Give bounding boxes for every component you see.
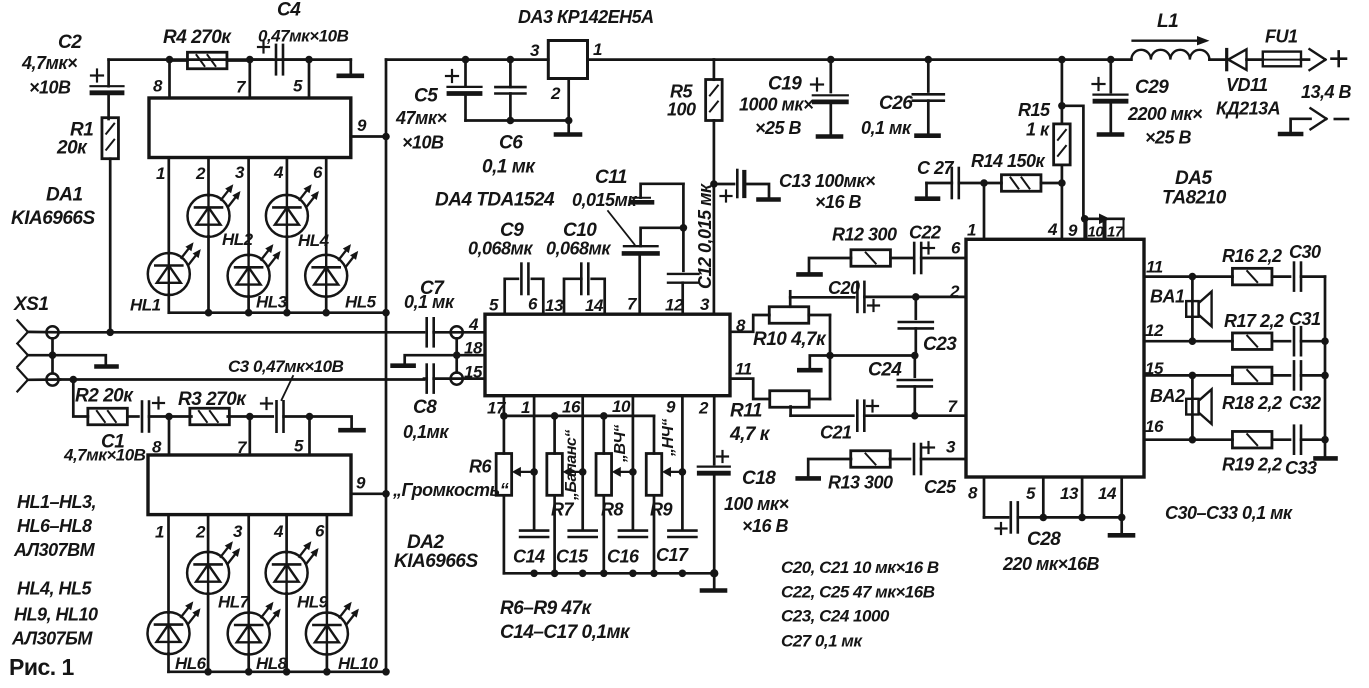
svg-text:C20: C20 <box>828 278 860 298</box>
ground pin 18 <box>405 355 457 363</box>
svg-text:14: 14 <box>1098 484 1117 503</box>
svg-text:4: 4 <box>273 522 284 541</box>
svg-text:R11: R11 <box>730 401 762 422</box>
svg-text:×10В: ×10В <box>29 78 71 98</box>
wire XS1 contact stubs <box>28 331 60 334</box>
capacitor C29 <box>1107 56 1115 64</box>
pin 2 DA4 <box>713 396 716 464</box>
pin 18 DA4 <box>457 354 485 357</box>
svg-text:18: 18 <box>464 339 483 358</box>
svg-text:C 27: C 27 <box>917 158 955 178</box>
speaker BA2 <box>1191 375 1194 439</box>
svg-text:DA3 КР142ЕН5А: DA3 КР142ЕН5А <box>518 7 654 27</box>
svg-text:0,015мк: 0,015мк <box>572 190 637 210</box>
svg-text:DA1: DA1 <box>46 185 83 206</box>
svg-text:R13 300: R13 300 <box>828 473 893 493</box>
pin 3 DA1 <box>247 158 250 256</box>
svg-text:15: 15 <box>464 363 483 382</box>
socket contact upper <box>46 326 58 338</box>
IC DA4 box <box>485 314 730 396</box>
svg-text:КД213А: КД213А <box>1216 99 1280 119</box>
capacitor C10 with pins 13,14 <box>564 279 581 314</box>
output plus terminal <box>1310 49 1326 60</box>
svg-text:0,1 мк: 0,1 мк <box>861 118 912 138</box>
svg-text:1: 1 <box>593 40 602 59</box>
svg-text:9: 9 <box>1068 221 1078 240</box>
pin 6 DA2 <box>326 515 329 613</box>
svg-text:Рис. 1: Рис. 1 <box>9 654 75 680</box>
wire rail bus-to-DA3 <box>386 58 548 61</box>
svg-text:0,1 мк: 0,1 мк <box>482 157 536 178</box>
wire top-left rail <box>109 58 351 61</box>
svg-text:HL1: HL1 <box>130 296 161 315</box>
svg-text:R10 4,7к: R10 4,7к <box>753 329 827 350</box>
potentiometer R7 balance <box>547 454 563 496</box>
svg-text:C23, C24 1000: C23, C24 1000 <box>781 607 890 626</box>
svg-text:2: 2 <box>550 84 561 103</box>
svg-text:R15: R15 <box>1018 100 1051 120</box>
svg-text:„НЧ“: „НЧ“ <box>660 419 677 457</box>
capacitor C1 <box>127 415 138 418</box>
resistor R17 2.2 <box>1192 340 1232 343</box>
svg-text:XS1: XS1 <box>13 294 48 315</box>
resistor R3 270k <box>169 415 191 418</box>
pin 1 DA1 <box>167 158 170 254</box>
pin 6 DA1 <box>325 158 328 256</box>
svg-text:R12 300: R12 300 <box>832 225 897 245</box>
pin 1 DA3 <box>588 58 714 61</box>
pin 5 DA1 <box>308 60 311 98</box>
fuse FU1 <box>1263 52 1301 67</box>
svg-text:C19: C19 <box>768 74 802 95</box>
svg-text:C33: C33 <box>1285 458 1317 478</box>
svg-text:L1: L1 <box>1157 11 1178 32</box>
svg-text:2: 2 <box>698 399 709 418</box>
resistor R11 4.7k <box>770 391 810 408</box>
svg-text:13: 13 <box>545 296 564 315</box>
capacitor C24 <box>913 356 916 377</box>
node C20-C23 <box>912 293 920 301</box>
svg-text:11: 11 <box>1146 258 1163 277</box>
LED HL9 <box>266 552 308 594</box>
svg-text:C30–C33 0,1 мк: C30–C33 0,1 мк <box>1165 503 1293 523</box>
svg-text:9: 9 <box>357 116 367 135</box>
svg-text:C29: C29 <box>1135 77 1169 98</box>
capacitor C18 <box>698 466 730 468</box>
resistor R18 2.2 <box>1192 374 1232 377</box>
svg-text:0,1 мк: 0,1 мк <box>404 292 455 312</box>
svg-text:5: 5 <box>489 296 499 315</box>
capacitor C3 <box>250 415 273 418</box>
svg-text:×25 В: ×25 В <box>1145 128 1192 148</box>
pin 7 DA1 <box>248 61 251 99</box>
pin 3 DA2 <box>247 515 250 613</box>
svg-text:R17 2,2: R17 2,2 <box>1224 311 1284 331</box>
svg-text:C11: C11 <box>595 167 627 188</box>
svg-text:HL1–HL3,: HL1–HL3, <box>17 492 96 512</box>
node R14-R15 <box>1058 179 1066 187</box>
socket pin 15 <box>451 373 463 385</box>
pin 9 DA2 <box>351 492 386 495</box>
svg-text:15: 15 <box>1145 359 1164 378</box>
svg-text:9: 9 <box>666 398 676 417</box>
svg-text:HL4: HL4 <box>298 231 330 250</box>
node R15 top bypass <box>1058 102 1066 110</box>
svg-text:13,4 В: 13,4 В <box>1301 82 1352 102</box>
svg-text:C14–C17 0,1мк: C14–C17 0,1мк <box>500 622 631 643</box>
svg-text:1 к: 1 к <box>1026 120 1050 140</box>
node C5 junction <box>462 56 470 64</box>
svg-text:12: 12 <box>1145 321 1164 340</box>
capacitor C27 <box>950 168 953 198</box>
svg-text:HL7: HL7 <box>218 593 251 612</box>
capacitor C4 <box>250 58 272 61</box>
pin 8 DA4 <box>730 315 769 332</box>
wire output right bus <box>1324 277 1327 457</box>
svg-text:5: 5 <box>1026 484 1036 503</box>
svg-text:C22: C22 <box>909 223 941 243</box>
svg-text:C18: C18 <box>742 468 776 489</box>
resistor R1 20k <box>102 118 119 159</box>
svg-text:2: 2 <box>195 164 206 183</box>
svg-text:1: 1 <box>521 398 530 417</box>
capacitor C23 <box>914 297 917 319</box>
svg-text:VD11: VD11 <box>1226 75 1268 95</box>
capacitor C15 <box>569 529 597 532</box>
pin 2 DA1 <box>207 158 210 196</box>
svg-text:R14 150к: R14 150к <box>971 151 1046 171</box>
svg-text:C2: C2 <box>58 32 82 53</box>
svg-text:C16: C16 <box>607 547 640 567</box>
svg-text:HL8: HL8 <box>256 654 288 673</box>
svg-text:C12 0,015 мк: C12 0,015 мк <box>695 183 715 289</box>
svg-text:4,7 к: 4,7 к <box>729 424 771 445</box>
wire R11 stem <box>789 407 792 416</box>
svg-text:9: 9 <box>356 474 366 493</box>
pin 10 DA4 <box>632 396 635 529</box>
svg-text:13: 13 <box>1060 484 1079 503</box>
svg-text:HL6–HL8: HL6–HL8 <box>17 516 92 536</box>
pin 9 DA1 <box>351 135 386 138</box>
svg-text:1: 1 <box>155 523 164 542</box>
svg-text:C17: C17 <box>656 545 689 565</box>
svg-text:5: 5 <box>293 77 303 96</box>
svg-text:0,47мк×10В: 0,47мк×10В <box>258 27 349 46</box>
capacitor C20 <box>856 282 859 312</box>
svg-text:KIA6966S: KIA6966S <box>11 208 95 229</box>
svg-text:R8: R8 <box>601 500 623 520</box>
LED HL4 <box>266 195 308 237</box>
pin 8 DA1 <box>168 60 171 98</box>
node C6 junction <box>507 56 515 64</box>
svg-text:0,1мк: 0,1мк <box>403 422 449 442</box>
pin 7 DA2 <box>248 417 251 456</box>
svg-text:DA2: DA2 <box>407 532 444 553</box>
svg-text:×25 В: ×25 В <box>755 118 802 138</box>
node DA2 LED bus to vertical bus <box>382 668 390 676</box>
svg-text:1: 1 <box>156 164 165 183</box>
node LED bus to vertical bus <box>382 309 390 317</box>
svg-text:C31: C31 <box>1289 309 1321 329</box>
wire bypass to pins 9-10-17 <box>1062 106 1084 219</box>
svg-text:HL5: HL5 <box>345 293 377 312</box>
LED HL8 <box>228 613 270 655</box>
capacitor C13 <box>714 183 734 186</box>
pin 4 DA2 <box>285 515 288 553</box>
socket contact lower <box>46 373 58 385</box>
svg-text:6: 6 <box>528 295 538 314</box>
svg-text:C6: C6 <box>499 133 523 154</box>
svg-text:C8: C8 <box>413 397 437 418</box>
wire R14 to pin1 DA5 <box>983 183 986 239</box>
svg-text:5: 5 <box>294 437 304 456</box>
svg-text:„Громкость“: „Громкость“ <box>392 480 509 500</box>
svg-text:C27 0,1 мк: C27 0,1 мк <box>781 632 863 651</box>
node C4-pin5 junction <box>305 56 313 64</box>
ground output bus <box>1316 456 1336 461</box>
svg-text:C15: C15 <box>556 547 589 567</box>
svg-text:„ВЧ“: „ВЧ“ <box>612 425 629 463</box>
node R3-pin7 <box>246 413 254 421</box>
resistor R4 270k <box>187 52 227 69</box>
svg-text:C5: C5 <box>414 86 438 107</box>
svg-text:20к: 20к <box>56 138 88 159</box>
pin 1 DA4 <box>533 396 536 529</box>
svg-text:8: 8 <box>736 316 746 335</box>
ground pot bus <box>713 573 716 588</box>
svg-text:FU1: FU1 <box>1265 27 1298 47</box>
svg-text:4,7мк×10В: 4,7мк×10В <box>63 446 146 465</box>
svg-text:R19 2,2: R19 2,2 <box>1222 455 1282 475</box>
pin 12 DA5 <box>1144 340 1192 343</box>
capacitor C7 <box>425 318 428 346</box>
svg-text:12: 12 <box>665 296 684 315</box>
resistor R13 300 <box>798 476 819 481</box>
diode VD11 <box>1225 50 1228 70</box>
svg-text:0,068мк: 0,068мк <box>468 239 533 259</box>
pin 1 DA2 <box>167 515 170 613</box>
svg-text:47мк×: 47мк× <box>395 108 447 128</box>
svg-text:100: 100 <box>667 100 696 120</box>
wire R7 top lead <box>553 416 556 454</box>
svg-text:4,7мк×: 4,7мк× <box>21 53 78 73</box>
pin 8 DA2 <box>168 417 171 456</box>
IC DA3 box <box>548 41 587 79</box>
wire upper input line <box>59 331 424 334</box>
svg-text:10: 10 <box>1088 224 1105 241</box>
svg-text:4: 4 <box>1047 220 1058 239</box>
ground XS1 middle contact <box>53 355 106 364</box>
svg-text:HL10: HL10 <box>338 654 379 673</box>
svg-text:6: 6 <box>313 163 323 182</box>
svg-text:R9: R9 <box>650 500 672 520</box>
svg-text:C23: C23 <box>923 334 957 355</box>
capacitor stub above C11 <box>631 200 652 205</box>
wire top rail right <box>714 58 1132 61</box>
pin 11 DA4 <box>730 379 769 399</box>
wire DA1 LED bus <box>169 311 386 314</box>
ground R10-R11 node <box>810 356 830 369</box>
svg-text:HL2: HL2 <box>222 230 254 249</box>
capacitor C8 <box>425 365 428 393</box>
wire L1 to VD11 <box>1209 58 1226 61</box>
svg-text:4: 4 <box>468 315 479 334</box>
pin 8 DA5 <box>983 477 986 517</box>
IC DA1 box <box>149 98 351 158</box>
svg-text:2: 2 <box>195 523 206 542</box>
svg-text:0,068мк: 0,068мк <box>546 239 611 259</box>
svg-text:R2 20к: R2 20к <box>75 386 134 407</box>
resistor R14 150k <box>1001 175 1040 192</box>
svg-text:KIA6966S: KIA6966S <box>394 551 478 572</box>
pin 5 DA5 <box>1042 477 1045 517</box>
node R14-C27 <box>980 179 988 187</box>
capacitor C21 <box>856 401 859 431</box>
capacitor C17 <box>668 529 696 532</box>
node R2 branch junction <box>70 376 78 384</box>
svg-text:BA2: BA2 <box>1150 386 1185 406</box>
svg-text:×10В: ×10В <box>402 133 444 153</box>
svg-text:HL4, HL5: HL4, HL5 <box>17 579 93 599</box>
svg-text:C30: C30 <box>1289 242 1321 262</box>
pin 2 DA3 <box>567 79 570 121</box>
pin 15 DA5 <box>1144 374 1192 377</box>
capacitor C11 on pin 7 <box>638 256 641 314</box>
node pin15 junction <box>1189 372 1197 380</box>
resistor R12 300 <box>799 272 821 277</box>
wire HL6 lead <box>167 654 170 672</box>
pin 16 DA4 <box>581 396 584 529</box>
resistor R16 2.2 <box>1192 275 1232 278</box>
ground pin 14 <box>1120 517 1123 533</box>
wire node to C23-C24 <box>830 354 915 357</box>
node pin11 junction <box>1189 273 1197 281</box>
svg-text:16: 16 <box>562 398 581 417</box>
svg-text:3: 3 <box>530 41 540 60</box>
LED HL5 <box>305 255 347 297</box>
svg-text:8: 8 <box>152 438 162 457</box>
node R5-C13 <box>710 180 718 188</box>
svg-text:C14: C14 <box>513 547 545 567</box>
svg-text:„Баланс“: „Баланс“ <box>563 430 580 501</box>
svg-text:C20, C21 10 мк×16 В: C20, C21 10 мк×16 В <box>781 558 939 577</box>
svg-text:R7: R7 <box>551 500 574 520</box>
capacitor C2 <box>107 60 110 87</box>
svg-text:C21: C21 <box>820 423 852 443</box>
svg-text:6: 6 <box>315 522 325 541</box>
pin 13 DA5 <box>1081 477 1084 517</box>
wire socket shield link <box>455 338 458 372</box>
ground after C3 <box>310 417 352 429</box>
node R4-C2 junction <box>166 56 174 64</box>
svg-text:R18 2,2: R18 2,2 <box>1222 393 1282 413</box>
LED HL3 <box>228 255 270 297</box>
svg-text:R3 270к: R3 270к <box>178 389 247 410</box>
svg-text:R6–R9 47к: R6–R9 47к <box>500 598 593 619</box>
pins 9-10-17 tie <box>1083 217 1123 220</box>
svg-text:×16 В: ×16 В <box>742 516 789 536</box>
capacitor C12 on pin 12 <box>682 184 685 271</box>
svg-text:10: 10 <box>612 397 631 416</box>
capacitor C16 <box>619 529 647 532</box>
svg-text:6: 6 <box>951 239 961 258</box>
capacitor C26 <box>925 56 933 64</box>
pin 9 DA4 <box>681 396 684 529</box>
wire C20 tap <box>789 291 792 306</box>
capacitor C5 <box>464 60 467 87</box>
resistor R15 1k <box>1058 56 1066 64</box>
svg-text:16: 16 <box>1145 417 1164 436</box>
node pin12 junction <box>1189 337 1197 345</box>
capacitor C33 <box>1272 438 1290 441</box>
capacitor C19 <box>827 56 835 64</box>
svg-text:3: 3 <box>233 522 243 541</box>
IC DA5 box <box>966 239 1144 477</box>
svg-text:HL3: HL3 <box>256 293 288 312</box>
wire R5 to pin3 DA4 <box>713 184 716 314</box>
capacitor C31 <box>1272 340 1290 343</box>
node C3-pin5 <box>306 413 314 421</box>
wire XS1 shield link <box>51 338 54 373</box>
capacitor C32 <box>1272 374 1290 377</box>
wire C5-C6 ground row <box>466 119 569 122</box>
capacitor C9 with pins 5,6 <box>505 279 518 314</box>
svg-text:C28: C28 <box>1027 529 1061 550</box>
svg-text:14: 14 <box>585 296 604 315</box>
IC DA2 box <box>148 455 351 515</box>
svg-text:11: 11 <box>735 360 752 379</box>
capacitor C25 <box>913 444 916 474</box>
svg-text:C13 100мк×: C13 100мк× <box>779 171 876 191</box>
ground after C4 <box>349 60 352 74</box>
svg-text:R16 2,2: R16 2,2 <box>1222 246 1282 266</box>
pin 4 DA1 <box>286 158 289 196</box>
speaker BA1 <box>1191 277 1194 342</box>
resistor R5 100 <box>713 60 716 80</box>
wire input to R2 <box>73 380 88 417</box>
resistor R10 4.7k <box>769 307 809 324</box>
svg-text:220 мк×16В: 220 мк×16В <box>1002 554 1100 574</box>
LED HL1 <box>148 253 190 295</box>
pin 2 DA2 <box>207 515 210 553</box>
potentiometer R9 bass <box>646 454 662 496</box>
svg-text:HL9: HL9 <box>297 593 329 612</box>
svg-text:3: 3 <box>946 438 956 457</box>
svg-text:C25: C25 <box>924 477 957 497</box>
pin 5 DA2 <box>308 417 311 456</box>
svg-text:АЛ307ВМ: АЛ307ВМ <box>13 540 96 560</box>
svg-text:4: 4 <box>273 163 284 182</box>
svg-text:C4: C4 <box>277 0 301 21</box>
svg-text:C3 0,47мк×10В: C3 0,47мк×10В <box>228 357 344 376</box>
svg-text:R5: R5 <box>670 82 693 102</box>
svg-text:×16 В: ×16 В <box>815 192 862 212</box>
potentiometer R6 volume <box>496 454 512 496</box>
svg-text:1000 мк×: 1000 мк× <box>739 95 814 115</box>
capacitor C6 <box>509 60 512 87</box>
svg-text:BA1: BA1 <box>1150 287 1185 307</box>
pin 11 DA5 <box>1144 275 1192 278</box>
node C1-R3-pin8 <box>165 413 173 421</box>
capacitor C30 <box>1272 275 1290 278</box>
wire HL1 lead <box>167 295 170 313</box>
node R10-R11 <box>829 315 832 399</box>
svg-text:3: 3 <box>700 295 710 314</box>
wire lower input line <box>59 378 424 381</box>
capacitor C22 <box>913 243 916 273</box>
capacitor C28 <box>984 516 1008 519</box>
LED HL6 <box>148 612 190 654</box>
